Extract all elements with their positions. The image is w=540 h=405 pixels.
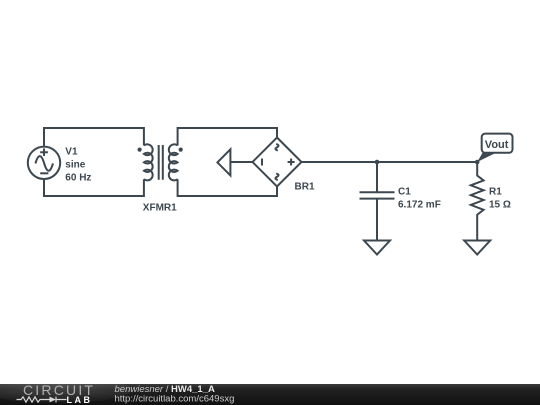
svg-text:C1: C1 (398, 186, 411, 197)
svg-text:LAB: LAB (67, 395, 93, 405)
svg-text:Vout: Vout (485, 139, 509, 151)
svg-text:6.172 mF: 6.172 mF (398, 199, 441, 210)
svg-text:15 Ω: 15 Ω (489, 199, 511, 210)
svg-text:http://circuitlab.com/c649sxg: http://circuitlab.com/c649sxg (115, 393, 235, 404)
svg-text:V1: V1 (65, 146, 78, 157)
svg-text:sine: sine (65, 159, 85, 170)
svg-text:60 Hz: 60 Hz (65, 172, 91, 183)
svg-text:R1: R1 (489, 186, 502, 197)
svg-text:BR1: BR1 (295, 182, 315, 193)
svg-text:XFMR1: XFMR1 (143, 203, 177, 214)
